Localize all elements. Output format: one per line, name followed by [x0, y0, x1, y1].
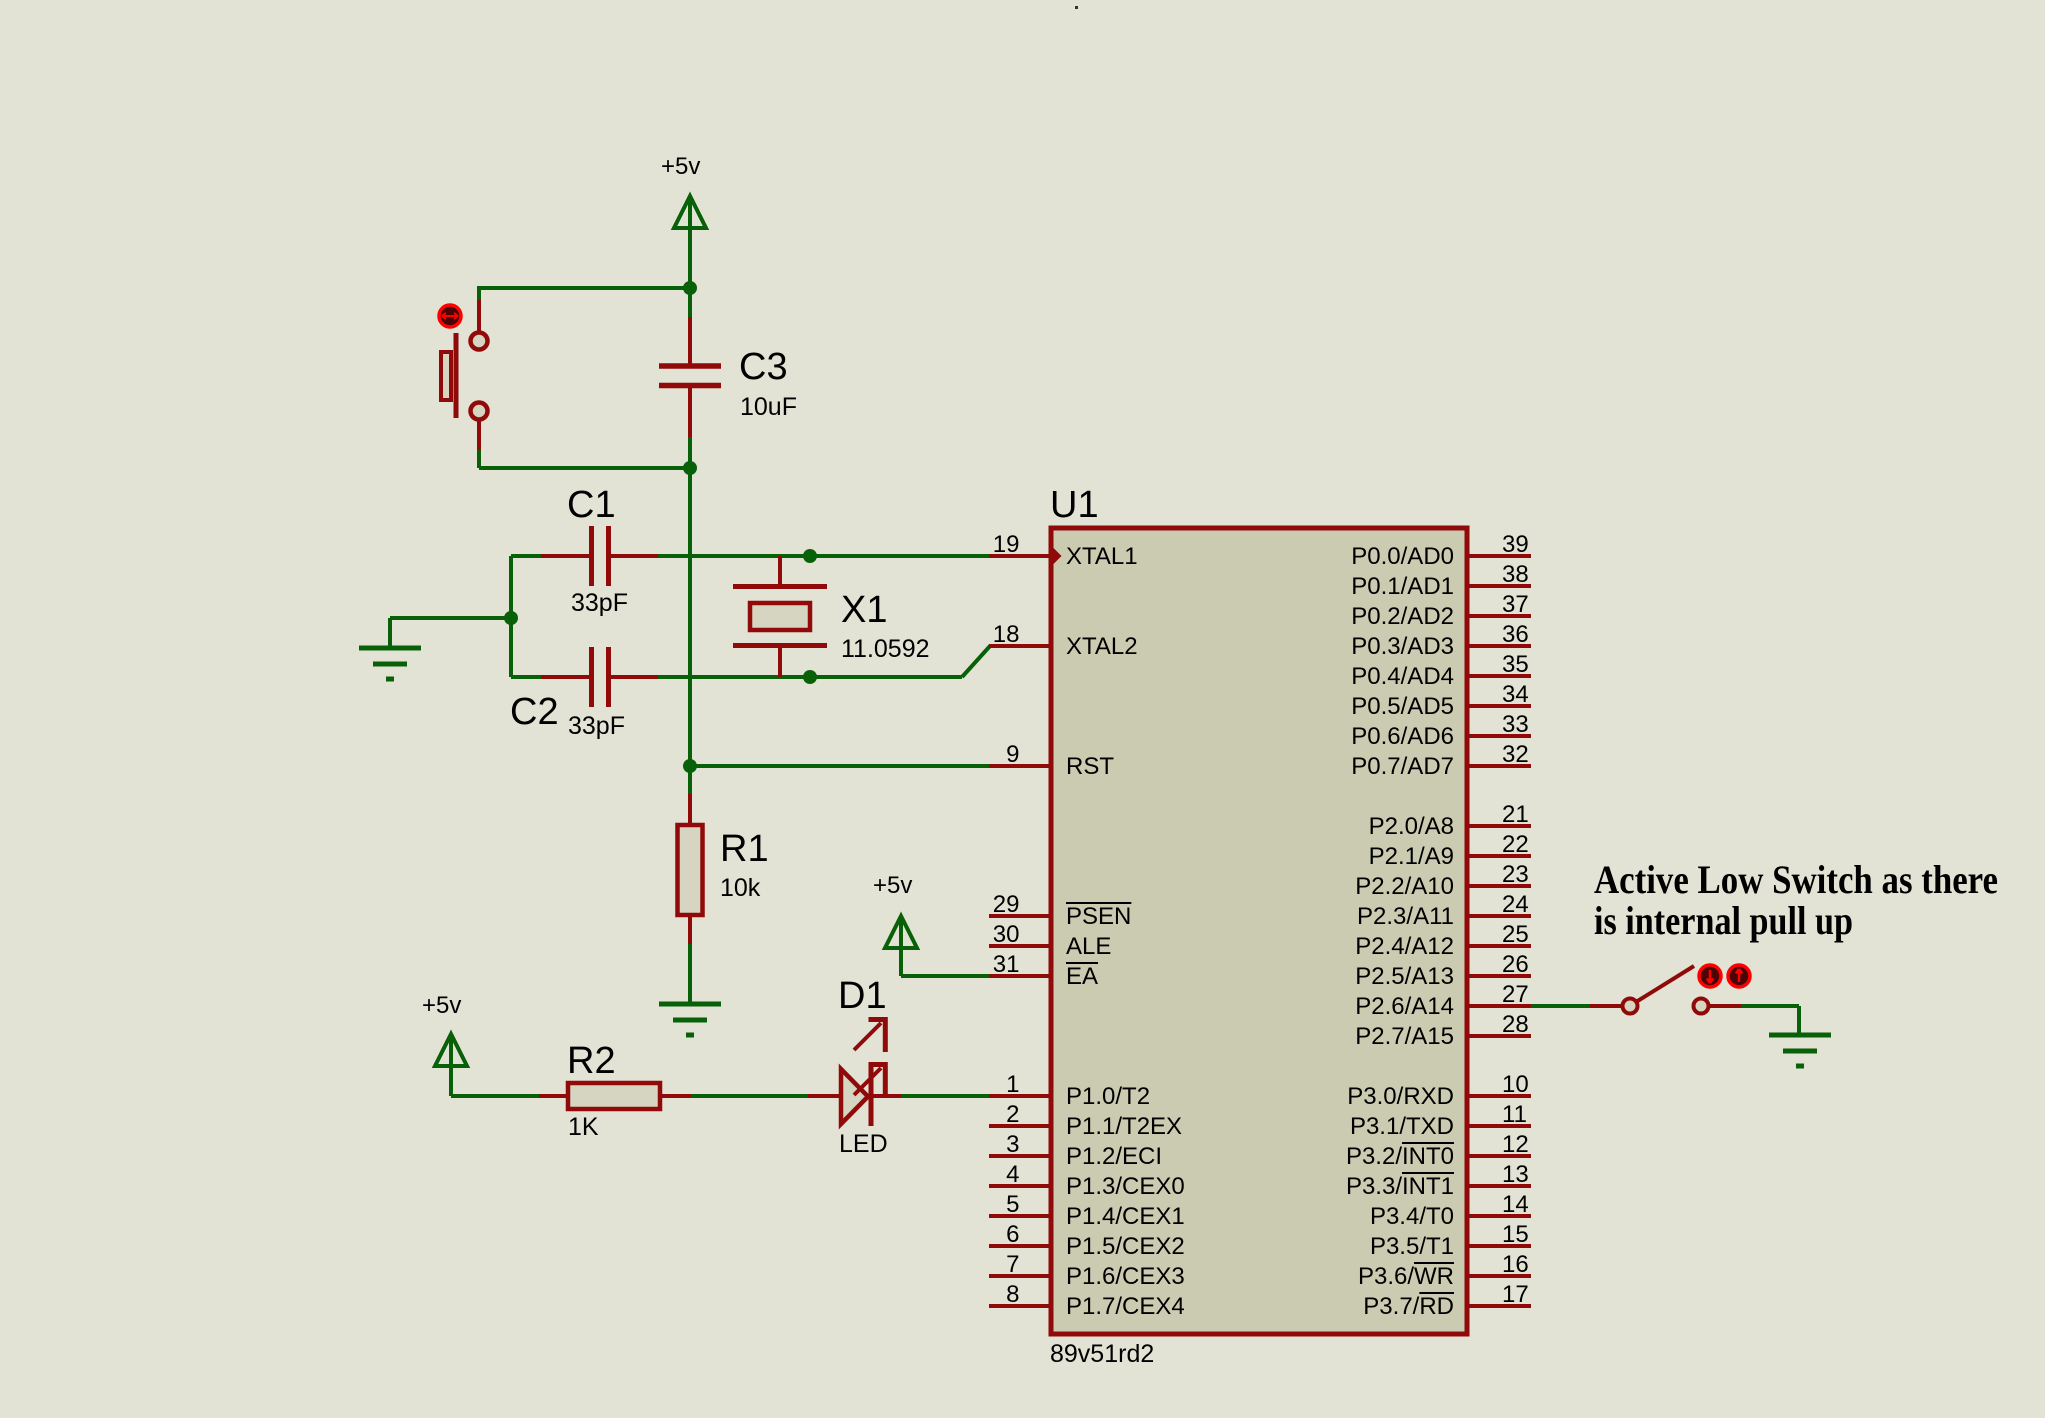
switch toggle markers: [1699, 965, 1750, 987]
svg-text:P3.5/T1: P3.5/T1: [1370, 1233, 1454, 1260]
svg-text:P2.1/A9: P2.1/A9: [1369, 843, 1454, 870]
svg-text:18: 18: [993, 621, 1020, 648]
wire gnd horizontal: [390, 616, 511, 620]
svg-text:37: 37: [1502, 591, 1529, 618]
switch (active low, P2.6): [1623, 966, 1709, 1014]
svg-text:31: 31: [993, 951, 1020, 978]
svg-text:36: 36: [1502, 621, 1529, 648]
svg-text:3: 3: [1006, 1131, 1019, 1158]
pin 6 P1.5/CEX2: [989, 1221, 1185, 1260]
pin 29 PSEN: [989, 891, 1131, 930]
pin 21 P2.0/A8: [1369, 801, 1531, 840]
svg-text:P2.4/A12: P2.4/A12: [1355, 933, 1454, 960]
U1 reference label: [1050, 484, 1099, 526]
pin 35 P0.4/AD4: [1351, 651, 1531, 690]
pin 22 P2.1/A9: [1369, 831, 1531, 870]
capacitor C2 33pF: [510, 647, 659, 740]
svg-text:2: 2: [1006, 1101, 1019, 1128]
svg-text:35: 35: [1502, 651, 1529, 678]
svg-text:C3: C3: [739, 346, 788, 388]
svg-text:30: 30: [993, 921, 1020, 948]
wire reset-top horizontal: [479, 286, 690, 290]
ground (right): [1769, 1035, 1831, 1066]
pin 11 P3.1/TXD: [1350, 1101, 1531, 1140]
svg-text:10uF: 10uF: [740, 393, 797, 421]
pin 13 P3.3/INT1: [1346, 1161, 1531, 1200]
pin 17 P3.7/RD: [1363, 1281, 1531, 1320]
svg-text:P3.6/WR: P3.6/WR: [1358, 1263, 1454, 1290]
svg-text:C1: C1: [567, 484, 616, 526]
svg-text:P1.7/CEX4: P1.7/CEX4: [1066, 1293, 1185, 1320]
svg-text:29: 29: [993, 891, 1020, 918]
pin 10 P3.0/RXD: [1347, 1071, 1531, 1110]
svg-text:P3.3/INT1: P3.3/INT1: [1346, 1173, 1454, 1200]
pin 9 RST: [989, 741, 1114, 780]
pin 33 P0.6/AD6: [1351, 711, 1531, 750]
svg-text:P1.2/ECI: P1.2/ECI: [1066, 1143, 1162, 1170]
svg-text:P3.7/RD: P3.7/RD: [1363, 1293, 1454, 1320]
svg-text:13: 13: [1502, 1161, 1529, 1188]
pin 24 P2.3/A11: [1357, 891, 1531, 930]
svg-text:is internal pull up: is internal pull up: [1594, 898, 1853, 943]
wire button bottom drop: [477, 421, 481, 468]
svg-text:12: 12: [1502, 1131, 1529, 1158]
ground (below R1): [659, 1004, 721, 1035]
svg-text:28: 28: [1502, 1011, 1529, 1038]
svg-text:33pF: 33pF: [571, 589, 628, 617]
svg-text:+5v: +5v: [873, 872, 912, 899]
svg-text:1: 1: [1006, 1071, 1019, 1098]
push button (reset switch): [441, 333, 488, 420]
svg-text:X1: X1: [841, 589, 887, 631]
pin 34 P0.5/AD5: [1351, 681, 1531, 720]
svg-text:P0.6/AD6: P0.6/AD6: [1351, 723, 1454, 750]
wire +5v to R2: [451, 1094, 540, 1098]
svg-text:P3.4/T0: P3.4/T0: [1370, 1203, 1454, 1230]
svg-text:33: 33: [1502, 711, 1529, 738]
svg-text:1K: 1K: [568, 1113, 599, 1141]
resistor R1 10k: [678, 766, 769, 1004]
pin 3 P1.2/ECI: [989, 1131, 1162, 1170]
svg-text:22: 22: [1502, 831, 1529, 858]
svg-text:PSEN: PSEN: [1066, 903, 1131, 930]
svg-text:P3.1/TXD: P3.1/TXD: [1350, 1113, 1454, 1140]
U1 value label 89v51rd2: [1050, 1340, 1154, 1368]
wire pin27 to switch: [1531, 1004, 1622, 1008]
svg-text:D1: D1: [838, 975, 887, 1017]
pin 23 P2.2/A10: [1355, 861, 1531, 900]
pin 31 EA: [989, 951, 1098, 990]
pin 12 P3.2/INT0: [1346, 1131, 1531, 1170]
svg-text:26: 26: [1502, 951, 1529, 978]
wire C1-C2 left vertical: [509, 556, 513, 677]
svg-text:ALE: ALE: [1066, 933, 1111, 960]
pin 26 P2.5/A13: [1355, 951, 1531, 990]
svg-text:P2.0/A8: P2.0/A8: [1369, 813, 1454, 840]
svg-text:5: 5: [1006, 1191, 1019, 1218]
pin 8 P1.7/CEX4: [989, 1281, 1185, 1320]
svg-text:P2.6/A14: P2.6/A14: [1355, 993, 1454, 1020]
pin 27 P2.6/A14: [1355, 981, 1531, 1020]
capacitor C1 33pF: [511, 484, 659, 617]
svg-text:16: 16: [1502, 1251, 1529, 1278]
svg-text:P0.5/AD5: P0.5/AD5: [1351, 693, 1454, 720]
LED D1: [808, 975, 901, 1158]
svg-text:6: 6: [1006, 1221, 1019, 1248]
ground (left): [359, 648, 421, 679]
wire RST vertical: [688, 468, 692, 766]
svg-text:21: 21: [1502, 801, 1529, 828]
junction left gnd node: [504, 611, 518, 625]
resistor R2 1K: [539, 1040, 692, 1141]
svg-text:XTAL1: XTAL1: [1066, 543, 1138, 570]
wire switch to gnd: [1709, 1006, 1799, 1035]
svg-text:P2.5/A13: P2.5/A13: [1355, 963, 1454, 990]
svg-text:25: 25: [1502, 921, 1529, 948]
pin 25 P2.4/A12: [1355, 921, 1531, 960]
svg-text:32: 32: [1502, 741, 1529, 768]
svg-text:11: 11: [1502, 1101, 1527, 1128]
svg-text:11.0592: 11.0592: [841, 635, 930, 663]
svg-text:P0.1/AD1: P0.1/AD1: [1351, 573, 1454, 600]
svg-text:P1.0/T2: P1.0/T2: [1066, 1083, 1150, 1110]
svg-text:RST: RST: [1066, 753, 1114, 780]
svg-text:P3.0/RXD: P3.0/RXD: [1347, 1083, 1454, 1110]
svg-text:R2: R2: [567, 1040, 616, 1082]
pin 30 ALE: [989, 921, 1111, 960]
pin 15 P3.5/T1: [1370, 1221, 1531, 1260]
svg-text:P0.3/AD3: P0.3/AD3: [1351, 633, 1454, 660]
svg-text:EA: EA: [1066, 963, 1098, 990]
svg-text:P1.1/T2EX: P1.1/T2EX: [1066, 1113, 1182, 1140]
pin 7 P1.6/CEX3: [989, 1251, 1185, 1290]
svg-text:P0.4/AD4: P0.4/AD4: [1351, 663, 1454, 690]
svg-text:P3.2/INT0: P3.2/INT0: [1346, 1143, 1454, 1170]
svg-text:P2.7/A15: P2.7/A15: [1355, 1023, 1454, 1050]
svg-text:P1.3/CEX0: P1.3/CEX0: [1066, 1173, 1185, 1200]
svg-text:14: 14: [1502, 1191, 1529, 1218]
junction reset bottom: [683, 461, 697, 475]
svg-text:38: 38: [1502, 561, 1529, 588]
svg-text:P2.3/A11: P2.3/A11: [1357, 903, 1454, 930]
svg-text:8: 8: [1006, 1281, 1019, 1308]
wire R2 to D1: [691, 1094, 809, 1098]
pin 5 P1.4/CEX1: [989, 1191, 1185, 1230]
pin 19 XTAL1: [989, 531, 1138, 570]
svg-text:C2: C2: [510, 691, 559, 733]
pin 4 P1.3/CEX0: [989, 1161, 1185, 1200]
wire XTAL2 net: [658, 675, 962, 679]
svg-text:P0.7/AD7: P0.7/AD7: [1351, 753, 1454, 780]
svg-text:LED: LED: [839, 1130, 888, 1158]
wire C3 top lead: [688, 288, 692, 366]
svg-text:23: 23: [1502, 861, 1529, 888]
push button toggle marker: [439, 305, 461, 327]
junction XTAL2 node: [803, 670, 817, 684]
wire D1 to pin 1: [901, 1094, 990, 1098]
op-amp U1 body (89v51rd2 MCU): [1051, 528, 1467, 1334]
svg-text:24: 24: [1502, 891, 1529, 918]
svg-text:39: 39: [1502, 531, 1529, 558]
svg-text:4: 4: [1006, 1161, 1019, 1188]
svg-text:+5v: +5v: [661, 153, 700, 180]
power +5v (R2): [422, 992, 467, 1096]
wire XTAL2 diagonal: [962, 646, 1000, 677]
svg-text:P0.2/AD2: P0.2/AD2: [1351, 603, 1454, 630]
svg-text:Active Low Switch as there: Active Low Switch as there: [1594, 857, 1998, 902]
junction reset top: [683, 281, 697, 295]
svg-text:7: 7: [1006, 1251, 1019, 1278]
svg-text:27: 27: [1502, 981, 1529, 1008]
power +5v (reset net): [661, 153, 706, 288]
wire gnd drop: [388, 618, 392, 648]
pin 1 P1.0/T2: [989, 1071, 1150, 1110]
svg-text:U1: U1: [1050, 484, 1099, 526]
pin 39 P0.0/AD0: [1351, 531, 1531, 570]
pin 18 XTAL2: [989, 621, 1138, 660]
svg-text:10: 10: [1502, 1071, 1529, 1098]
svg-text:R1: R1: [720, 828, 769, 870]
pin 36 P0.3/AD3: [1351, 621, 1531, 660]
power +5v (EA): [873, 872, 917, 976]
svg-text:9: 9: [1006, 741, 1019, 768]
svg-text:P0.0/AD0: P0.0/AD0: [1351, 543, 1454, 570]
svg-text:19: 19: [993, 531, 1020, 558]
crystal X1 11.0592: [733, 556, 930, 677]
wire reset-bottom horizontal: [479, 466, 690, 470]
svg-text:10k: 10k: [720, 874, 761, 902]
wire EA: [901, 974, 990, 978]
wire button top drop: [477, 286, 481, 331]
pin 2 P1.1/T2EX: [989, 1101, 1182, 1140]
pin 32 P0.7/AD7: [1351, 741, 1531, 780]
pin 28 P2.7/A15: [1355, 1011, 1531, 1050]
wire C3 bottom lead: [688, 388, 692, 468]
svg-text:33pF: 33pF: [568, 712, 625, 740]
junction XTAL1 node: [803, 549, 817, 563]
annotation note: [1594, 857, 1998, 943]
svg-text:P1.5/CEX2: P1.5/CEX2: [1066, 1233, 1185, 1260]
svg-text:89v51rd2: 89v51rd2: [1050, 1340, 1154, 1368]
junction RST node: [683, 759, 697, 773]
wire RST to pin 9: [690, 764, 990, 768]
svg-text:P1.6/CEX3: P1.6/CEX3: [1066, 1263, 1185, 1290]
svg-text:P2.2/A10: P2.2/A10: [1355, 873, 1454, 900]
svg-text:P1.4/CEX1: P1.4/CEX1: [1066, 1203, 1185, 1230]
pin 38 P0.1/AD1: [1351, 561, 1531, 600]
svg-text:34: 34: [1502, 681, 1529, 708]
svg-text:17: 17: [1502, 1281, 1529, 1308]
svg-text:+5v: +5v: [422, 992, 461, 1019]
pin 14 P3.4/T0: [1370, 1191, 1531, 1230]
capacitor C3 10uF: [659, 346, 797, 421]
pin 16 P3.6/WR: [1358, 1251, 1531, 1290]
pin 37 P0.2/AD2: [1351, 591, 1531, 630]
wire XTAL1 net: [658, 554, 990, 558]
svg-text:15: 15: [1502, 1221, 1529, 1248]
svg-text:XTAL2: XTAL2: [1066, 633, 1138, 660]
